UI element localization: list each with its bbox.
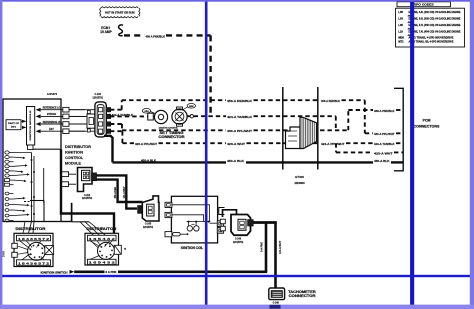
svg-text:L05: L05 xyxy=(398,23,403,27)
svg-text:1 8 4 3 6 5 7 2: 1 8 4 3 6 5 7 2 xyxy=(18,238,50,241)
wire fuse feed vertical drop xyxy=(209,35,211,116)
svg-text:1 8 4 3 6 5 7 2: 1 8 4 3 6 5 7 2 xyxy=(18,262,50,265)
svg-text:REFERENCE LO: REFERENCE LO xyxy=(43,106,61,110)
module signal BYPASS xyxy=(36,112,85,119)
svg-text:121-A WHT: 121-A WHT xyxy=(279,240,282,254)
svg-text:12015791: 12015791 xyxy=(143,227,154,229)
module internal bus wires xyxy=(23,153,44,234)
module signal REFERENCE LO xyxy=(36,106,85,113)
ignition coil box xyxy=(171,196,217,243)
RPO guide table header xyxy=(397,2,451,7)
wire module to distributor 2 xyxy=(61,150,114,234)
svg-text:450-A BLK: 450-A BLK xyxy=(374,159,390,163)
svg-text:424-A TAN/BLK: 424-A TAN/BLK xyxy=(227,115,253,119)
svg-text:ENGINE, 7.4L (454 CID) V8 GASO: ENGINE, 7.4L (454 CID) V8 GASOLINE ENGIN… xyxy=(409,30,461,34)
blue divider horizontal xyxy=(0,275,474,277)
svg-text:12015791 12015792: 12015791 12015792 xyxy=(158,128,178,130)
set timing connector icons xyxy=(148,107,187,126)
frame bottom xyxy=(0,305,474,309)
svg-text:453-A RED/BLK: 453-A RED/BLK xyxy=(227,99,253,103)
svg-text:430-A PPL/WHT: 430-A PPL/WHT xyxy=(374,132,395,136)
module strip output box xyxy=(28,145,62,150)
svg-text:424-A TAN/BLK: 424-A TAN/BLK xyxy=(374,142,395,146)
connector C-145 label xyxy=(143,223,154,229)
svg-text:MODULE: MODULE xyxy=(65,161,82,165)
svg-text:AUTO TRANS, HD, 4-SPD W/OVERD: AUTO TRANS, HD, 4-SPD W/OVERDRIVE xyxy=(409,39,454,43)
module signal EST xyxy=(36,127,85,134)
svg-text:450-A BLK: 450-A BLK xyxy=(227,159,245,163)
wire tachometer down xyxy=(274,223,277,289)
wire C-102 to C-145 lower xyxy=(96,180,143,202)
wire C-102 to C-145 upper xyxy=(96,175,137,208)
svg-text:10 AMP: 10 AMP xyxy=(100,30,112,34)
tachometer connector icon xyxy=(269,288,285,300)
connector C-102 label xyxy=(82,195,93,200)
connector C-146 label xyxy=(233,238,244,244)
bulkhead left wall xyxy=(282,87,284,170)
grommet GT300 label xyxy=(294,175,305,185)
connector C-102 body xyxy=(78,168,97,192)
svg-text:424-A PPL/WHT: 424-A PPL/WHT xyxy=(321,142,345,146)
svg-text:453-A RED: 453-A RED xyxy=(114,187,117,199)
connector C-146 body xyxy=(220,210,253,235)
svg-text:ECM I: ECM I xyxy=(101,26,110,30)
svg-text:IGNITION MODULE: IGNITION MODULE xyxy=(30,110,32,141)
svg-text:12015791: 12015791 xyxy=(92,96,103,99)
svg-text:1 6 5 4 3 2: 1 6 5 4 3 2 xyxy=(89,238,117,241)
distributor 2 xyxy=(85,233,121,265)
svg-text:1 6 5 4 3 2: 1 6 5 4 3 2 xyxy=(89,262,117,265)
blue divider vertical right xyxy=(410,0,414,305)
svg-text:12015792: 12015792 xyxy=(82,198,93,200)
svg-text:423-A PPL/WHT: 423-A PPL/WHT xyxy=(135,142,157,146)
wire 453-A RED/BLK reference lo xyxy=(110,99,403,136)
svg-text:424-A TAN/BLK: 424-A TAN/BLK xyxy=(112,113,134,117)
svg-text:439-A PNK/BLK: 439-A PNK/BLK xyxy=(374,109,395,113)
svg-text:12015792: 12015792 xyxy=(233,242,244,244)
svg-text:CONNECTOR: CONNECTOR xyxy=(289,294,316,298)
svg-text:430-A PPL/WHT: 430-A PPL/WHT xyxy=(227,129,252,133)
DICM module box xyxy=(3,99,61,222)
tag GRN xyxy=(142,109,155,114)
ignition switch arrow xyxy=(70,270,75,274)
tachometer connector label xyxy=(288,290,316,298)
module internal strip xyxy=(27,107,35,146)
svg-text:DIST.: DIST. xyxy=(11,127,17,129)
frame left xyxy=(0,0,2,309)
wire C-102 drop to module bottom xyxy=(61,203,72,222)
svg-text:C-149: C-149 xyxy=(273,302,280,305)
wire 423-A WHT est xyxy=(110,131,403,146)
svg-text:423-A WHT: 423-A WHT xyxy=(227,142,245,146)
module pin cluster xyxy=(5,151,36,222)
svg-text:L35: L35 xyxy=(398,10,403,14)
blue divider vertical left xyxy=(205,0,208,305)
svg-text:GRN: GRN xyxy=(144,111,149,113)
svg-text:ENGINE, 5.7L (350 CID) V8 GASO: ENGINE, 5.7L (350 CID) V8 GASOLINE ENGIN… xyxy=(409,23,461,27)
svg-text:GT300: GT300 xyxy=(295,175,305,179)
svg-text:423-A WHT: 423-A WHT xyxy=(374,151,393,155)
connector C-145 body xyxy=(138,196,159,221)
svg-text:L03: L03 xyxy=(398,17,403,21)
svg-text:C-102: C-102 xyxy=(84,195,91,197)
fuse symbol ECM I xyxy=(119,25,123,36)
bulkhead right wall xyxy=(317,87,319,170)
svg-text:C-146: C-146 xyxy=(235,238,242,241)
fuse ECM I 10 AMP label xyxy=(100,26,112,34)
module internal wire to bottom edge xyxy=(24,201,44,222)
grommet GT300 xyxy=(286,117,317,148)
svg-text:IGNITION COIL: IGNITION COIL xyxy=(181,246,204,250)
svg-text:IGNITION SWITCH: IGNITION SWITCH xyxy=(41,271,68,275)
svg-text:1221876: 1221876 xyxy=(47,92,58,96)
set timing connector label xyxy=(158,128,185,139)
distributor 1 xyxy=(12,233,54,266)
svg-text:BRN: BRN xyxy=(189,106,194,108)
connector C-100 label xyxy=(92,93,103,99)
tachometer id over frame xyxy=(270,305,281,309)
svg-text:CONNECTOR: CONNECTOR xyxy=(159,135,186,139)
svg-text:ENGINE, 5.0L (305 CID) V8 GASO: ENGINE, 5.0L (305 CID) V8 GASOLINE ENGIN… xyxy=(409,17,461,21)
wire 423-A WHT branch to PCM xyxy=(336,143,403,155)
module coil driver pins xyxy=(62,172,77,187)
svg-text:RPO CODES: RPO CODES xyxy=(414,3,434,7)
svg-text:439 A PNK/BLK: 439 A PNK/BLK xyxy=(146,34,166,38)
svg-text:HOT IN START OR RUN: HOT IN START OR RUN xyxy=(105,11,135,15)
svg-text:C-145: C-145 xyxy=(145,223,152,226)
arrows from pick-up coil xyxy=(21,120,27,129)
svg-text:IGNITION: IGNITION xyxy=(65,151,84,155)
svg-text:EST: EST xyxy=(49,127,54,131)
DICM module label xyxy=(65,145,92,165)
svg-text:3-A PNK: 3-A PNK xyxy=(261,242,264,252)
ignition coil internals xyxy=(172,205,217,236)
svg-text:3 A PNK: 3 A PNK xyxy=(105,270,117,274)
PCM connectors label xyxy=(414,119,441,129)
connector C-100 body xyxy=(69,102,111,137)
svg-text:MT1: MT1 xyxy=(398,39,404,43)
wire C-146 to junction xyxy=(253,221,277,224)
frame top xyxy=(0,0,474,2)
svg-text:BYPASS: BYPASS xyxy=(47,112,56,116)
svg-text:121-A WHT: 121-A WHT xyxy=(123,186,126,199)
svg-text:MD8: MD8 xyxy=(398,36,404,40)
wire 430-A PPL/WHT reference hi xyxy=(110,109,403,133)
svg-text:AUTO TRANS, 4-SPD W/OVERDRIVE: AUTO TRANS, 4-SPD W/OVERDRIVE xyxy=(409,36,454,40)
wire ignition feed down xyxy=(265,223,268,272)
svg-text:CONTROL: CONTROL xyxy=(65,156,83,160)
tag BRN xyxy=(183,104,196,110)
svg-text:450-A BLK: 450-A BLK xyxy=(141,159,157,163)
svg-text:CONNECTORS: CONNECTORS xyxy=(414,125,441,129)
svg-text:453-A RED/BLK: 453-A RED/BLK xyxy=(321,99,341,103)
ignition coil pins xyxy=(165,202,225,237)
svg-text:C-5 8: C-5 8 xyxy=(4,251,6,257)
pick-up coil box PART OF DIST xyxy=(6,120,21,130)
wire 439 A PNK/BLK fuse feed xyxy=(124,34,211,38)
wires into distributor 2 xyxy=(72,222,106,236)
svg-text:REFERENCE HI: REFERENCE HI xyxy=(43,120,61,124)
PCM connector bracket xyxy=(394,88,403,171)
frame right xyxy=(470,0,474,309)
svg-text:ENGINE, 4.3L (262 CID) V6 GASO: ENGINE, 4.3L (262 CID) V6 GASOLINE ENGIN… xyxy=(409,10,461,14)
svg-text:PART OF: PART OF xyxy=(8,122,20,125)
svg-text:18206909: 18206909 xyxy=(294,183,305,185)
svg-text:PCM: PCM xyxy=(423,119,431,123)
RPO guide table body xyxy=(396,8,465,47)
wire 450-A BLK ground xyxy=(104,136,403,163)
fuse block HOT IN START OR RUN xyxy=(100,7,140,18)
svg-text:M: M xyxy=(124,249,126,251)
svg-text:L19: L19 xyxy=(398,30,403,34)
wire 3-A PNK ignition feed xyxy=(74,270,267,274)
svg-text:DISTRIBUTOR: DISTRIBUTOR xyxy=(65,145,92,149)
svg-text:DISTRIBUTOR: DISTRIBUTOR xyxy=(16,227,47,231)
module signal REFERENCE HI xyxy=(36,120,85,126)
wire 424-A TAN/BLK bypass xyxy=(110,106,336,130)
